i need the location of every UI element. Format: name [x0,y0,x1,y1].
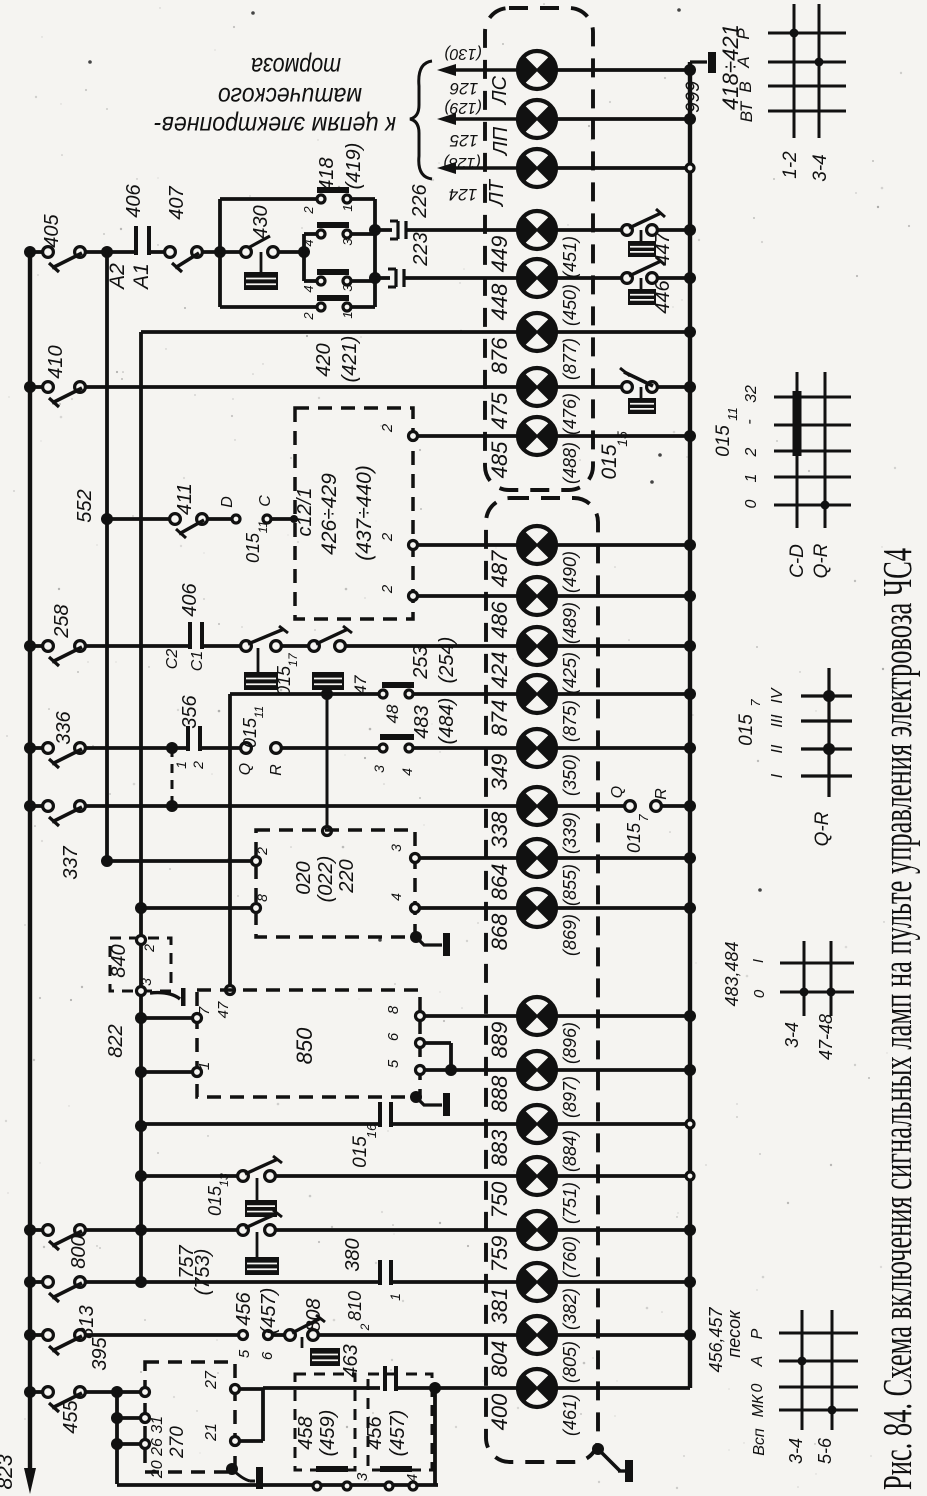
svg-text:5-6: 5-6 [815,1437,835,1464]
svg-text:015: 015 [205,1185,225,1216]
svg-text:C-D: C-D [787,544,808,578]
svg-text:15: 15 [614,431,630,447]
svg-text:Q-R: Q-R [811,543,832,578]
svg-text:1: 1 [340,204,355,211]
svg-text:III: III [769,714,786,728]
svg-text:(488): (488) [560,442,580,484]
svg-text:2: 2 [358,1323,372,1331]
svg-text:349: 349 [487,754,512,791]
svg-text:Q: Q [237,763,254,775]
svg-text:5: 5 [385,1059,402,1068]
svg-text:47: 47 [215,1001,232,1018]
svg-text:6: 6 [385,1032,402,1041]
svg-text:015: 015 [624,822,644,853]
svg-text:3: 3 [371,765,387,773]
svg-text:(450): (450) [560,284,580,326]
svg-text:(339): (339) [560,812,580,854]
svg-text:(350): (350) [560,754,580,796]
svg-text:410: 410 [45,345,67,378]
svg-text:(421): (421) [339,336,361,383]
svg-text:1: 1 [743,474,760,483]
svg-text:2: 2 [190,761,206,770]
svg-text:4: 4 [301,285,316,292]
svg-text:1-2: 1-2 [780,151,801,179]
svg-text:(489): (489) [560,602,580,644]
svg-text:Q: Q [609,786,626,798]
svg-text:3-4: 3-4 [786,1438,806,1464]
svg-text:0: 0 [743,499,760,508]
svg-text:407: 407 [166,185,188,219]
svg-text:1: 1 [196,1062,213,1070]
svg-text:(805): (805) [560,1341,580,1383]
svg-text:к цепям электропнев-: к цепям электропнев- [154,111,396,141]
svg-text:47-48: 47-48 [816,1014,836,1060]
svg-text:7: 7 [636,814,651,822]
svg-text:015: 015 [736,714,757,746]
svg-text:(022): (022) [315,856,337,903]
svg-text:16: 16 [364,1123,379,1138]
svg-text:258: 258 [51,604,73,638]
svg-text:-: - [741,419,758,424]
svg-text:808: 808 [303,1298,325,1331]
svg-text:Всп: Всп [751,1428,768,1456]
svg-text:406: 406 [179,582,201,616]
svg-text:32: 32 [743,385,760,403]
svg-text:ЛС: ЛС [489,75,511,106]
svg-text:(437÷440): (437÷440) [353,465,376,561]
svg-text:3-4: 3-4 [810,154,831,181]
svg-text:220: 220 [336,859,358,893]
svg-text:2: 2 [379,532,396,542]
svg-text:(254): (254) [436,637,458,684]
svg-text:8: 8 [385,1005,402,1014]
svg-text:405: 405 [41,213,63,247]
svg-text:456: 456 [233,1291,255,1325]
svg-text:A2: A2 [106,263,129,291]
svg-text:А: А [749,1356,766,1368]
svg-text:R: R [268,764,285,776]
svg-text:253: 253 [410,645,432,679]
svg-text:(896): (896) [560,1022,580,1064]
svg-text:126: 126 [449,79,478,98]
svg-text:(897): (897) [560,1076,580,1118]
svg-text:448: 448 [487,283,512,320]
svg-text:4: 4 [388,893,404,901]
svg-text:I: I [769,773,786,778]
svg-text:810: 810 [345,1291,365,1321]
svg-text:7: 7 [196,1006,213,1015]
svg-text:015: 015 [243,532,263,563]
svg-text:7: 7 [748,699,763,707]
svg-text:тормоза: тормоза [251,52,341,82]
svg-text:822: 822 [105,1024,127,1057]
svg-text:356: 356 [179,694,201,728]
svg-text:3: 3 [340,284,355,292]
svg-text:4: 4 [301,239,316,246]
svg-text:5: 5 [236,1349,253,1358]
svg-text:483: 483 [411,705,433,738]
svg-text:889: 889 [487,1022,512,1059]
svg-text:2: 2 [379,423,396,433]
svg-text:13: 13 [217,1173,231,1187]
svg-text:874: 874 [487,700,512,737]
svg-text:Рис. 84. Схема включения сигна: Рис. 84. Схема включения сигнальных ламп… [874,548,920,1490]
svg-text:850: 850 [292,1027,317,1064]
svg-text:27: 27 [203,1370,220,1390]
svg-text:015: 015 [274,665,294,696]
svg-text:400: 400 [487,1393,512,1430]
svg-text:(457): (457) [258,1288,280,1335]
svg-text:С2: С2 [164,649,181,670]
svg-text:(382): (382) [560,1288,580,1330]
svg-text:800: 800 [68,1235,90,1268]
svg-text:015: 015 [350,1136,371,1168]
svg-text:3: 3 [138,978,154,986]
svg-text:3: 3 [388,844,404,852]
svg-text:(869): (869) [560,914,580,956]
svg-text:11: 11 [256,521,270,533]
svg-text:487: 487 [487,550,512,587]
svg-text:447: 447 [652,231,674,265]
svg-text:2: 2 [301,312,316,321]
svg-text:(129): (129) [444,99,481,116]
svg-text:552: 552 [74,489,96,522]
svg-text:(419): (419) [343,143,365,190]
svg-text:475: 475 [487,392,512,429]
svg-text:матического: матического [218,82,362,112]
svg-text:2: 2 [743,447,760,457]
svg-text:II: II [769,744,786,753]
svg-text:759: 759 [487,1236,512,1273]
svg-text:4: 4 [404,1474,421,1482]
svg-text:888: 888 [487,1075,512,1112]
svg-text:R: R [653,788,670,800]
svg-text:015: 015 [598,444,621,479]
svg-text:823: 823 [0,1454,17,1489]
svg-text:486: 486 [487,601,512,638]
svg-text:020: 020 [293,861,315,894]
svg-text:840: 840 [108,944,130,977]
svg-text:336: 336 [53,710,75,744]
svg-text:1: 1 [387,1293,403,1301]
svg-text:(490): (490) [560,551,580,593]
svg-text:(476): (476) [560,393,580,435]
svg-text:430: 430 [250,205,272,238]
svg-text:458: 458 [295,1416,317,1449]
svg-text:804: 804 [487,1341,512,1378]
svg-text:(128): (128) [443,154,480,171]
svg-text:(760): (760) [560,1236,580,1278]
svg-text:338: 338 [487,811,512,848]
svg-text:(130): (130) [444,45,481,62]
svg-text:4: 4 [399,768,415,776]
svg-text:1: 1 [340,311,355,318]
svg-text:3-4: 3-4 [782,1022,802,1048]
svg-text:456,457: 456,457 [706,1306,726,1372]
svg-text:(461): (461) [560,1394,580,1436]
svg-text:876: 876 [487,337,512,374]
svg-text:449: 449 [487,236,512,273]
svg-text:6: 6 [259,1351,276,1360]
svg-text:3: 3 [340,238,355,246]
svg-text:124: 124 [449,185,477,204]
svg-text:(457): (457) [387,1410,409,1457]
svg-text:A1: A1 [130,263,153,291]
svg-text:485: 485 [487,441,512,478]
svg-text:483,484: 483,484 [722,941,742,1006]
svg-text:455: 455 [60,1399,82,1433]
svg-text:20 26 31: 20 26 31 [149,1416,166,1479]
svg-text:(425): (425) [560,652,580,694]
svg-text:I: I [750,959,767,963]
svg-text:424: 424 [487,652,512,689]
svg-text:446: 446 [652,279,674,313]
svg-text:380: 380 [342,1238,364,1271]
svg-text:015: 015 [240,717,260,748]
svg-text:426÷429: 426÷429 [318,473,341,555]
svg-text:(484): (484) [436,698,458,745]
svg-text:С1: С1 [189,651,206,671]
svg-text:D: D [219,496,236,508]
svg-text:11: 11 [252,706,266,718]
svg-text:395: 395 [89,1336,111,1370]
svg-text:2: 2 [301,206,316,215]
svg-text:ЛП: ЛП [490,126,512,157]
svg-text:17: 17 [286,652,300,667]
svg-text:381: 381 [487,1288,512,1325]
svg-text:(875): (875) [560,700,580,742]
svg-text:999: 999 [683,81,704,113]
svg-text:(753): (753) [192,1249,214,1296]
svg-text:песок: песок [724,1309,744,1358]
svg-text:456: 456 [364,1415,386,1449]
svg-text:Р: Р [749,1328,766,1339]
svg-text:(884): (884) [560,1130,580,1172]
svg-text:(855): (855) [560,864,580,906]
svg-text:1: 1 [173,761,189,769]
svg-text:3: 3 [354,1472,371,1481]
svg-text:(459): (459) [317,1410,339,1457]
svg-text:21: 21 [203,1423,220,1442]
svg-text:47: 47 [351,675,370,694]
svg-text:МК: МК [750,1393,767,1417]
svg-text:015: 015 [713,425,734,457]
svg-text:48: 48 [383,704,402,723]
svg-text:270: 270 [167,1426,188,1459]
svg-text:2: 2 [379,584,396,594]
svg-text:с12/1: с12/1 [294,488,316,537]
svg-text:406: 406 [123,183,145,217]
svg-text:883: 883 [487,1129,512,1166]
svg-text:IV: IV [769,687,786,703]
svg-text:Q-R: Q-R [812,811,833,846]
svg-text:418÷421: 418÷421 [718,24,743,110]
svg-text:420: 420 [313,343,335,376]
svg-text:337: 337 [60,845,82,879]
svg-text:C: C [257,495,274,507]
svg-text:223: 223 [410,232,432,266]
svg-text:(877): (877) [560,338,580,380]
svg-text:ЛТ: ЛТ [486,178,508,208]
svg-text:8: 8 [254,894,270,902]
svg-text:750: 750 [487,1181,512,1218]
svg-text:11: 11 [725,407,740,421]
svg-text:125: 125 [449,131,478,150]
svg-text:864: 864 [487,864,512,901]
svg-text:418: 418 [316,157,338,190]
svg-text:0: 0 [749,1383,766,1392]
svg-text:411: 411 [174,483,196,515]
svg-text:0: 0 [751,989,768,998]
svg-text:2: 2 [254,847,270,856]
svg-text:868: 868 [487,913,512,950]
svg-text:226: 226 [409,183,431,218]
svg-text:(751): (751) [560,1182,580,1224]
svg-text:(451): (451) [560,236,580,278]
